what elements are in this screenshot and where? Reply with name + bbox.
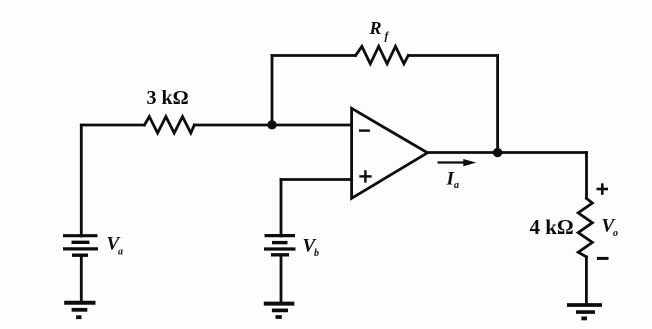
wire: feedback top horizontal right of Rf [409,54,498,57]
svg-text:a: a [118,247,123,258]
svg-text:3 kΩ: 3 kΩ [147,87,189,109]
wire: top-left horizontal from left branch to 3k resistor [81,124,144,127]
wire: right vertical down to 4k resistor [585,153,588,199]
svg-text:a: a [454,180,459,191]
wire: left vertical from 3k input down to Va battery [80,125,83,236]
battery Va [63,236,98,256]
resistor 3 kOhm [145,117,195,133]
op-amp inverting input minus sign [359,129,370,131]
svg-text:R: R [369,18,382,38]
resistor Rf [356,46,409,63]
svg-text:b: b [314,248,319,259]
svg-text:4 kΩ: 4 kΩ [530,215,574,239]
battery Vb [264,236,296,255]
label: Vb [303,236,320,260]
node A: inverting input junction dot [267,120,276,129]
op-amp U1 triangle [352,108,428,198]
label: Ia below arrow [446,168,460,191]
label: plus polarity of Vo [597,183,609,195]
wire: feedback left vertical [271,56,274,126]
label: Vo [602,216,619,239]
ground (left, below Va) [64,303,95,317]
label: Rf [369,18,390,43]
label: Va [107,234,124,258]
op-amp non-inverting input plus sign [359,170,371,182]
ground (middle, below Vb) [264,304,295,317]
ground (right, below Vo) [567,305,602,318]
wire: non-inverting input horizontal [281,178,352,181]
wire: op-amp output to right branch [428,151,587,154]
wire: feedback top horizontal left of Rf [272,54,355,57]
wire: Va battery to left ground [80,255,83,303]
wire: node to op-amp inverting input [272,124,352,127]
svg-text:o: o [613,228,618,239]
current arrow Ia [438,159,477,166]
label: minus polarity of Vo [597,257,609,260]
label: 3 kOhm [147,87,189,109]
wire: from 3k resistor to inverting input node [195,124,273,127]
wire: Vb battery to middle ground [280,255,283,304]
wire: 4k resistor to right ground [585,257,588,305]
label: 4 kOhm [530,215,574,239]
node B: output junction dot [493,148,502,157]
resistor 4 kOhm (vertical) [578,198,592,256]
wire: Vb vertical down to battery [280,180,283,237]
wire: feedback right vertical down to output node [496,56,499,153]
